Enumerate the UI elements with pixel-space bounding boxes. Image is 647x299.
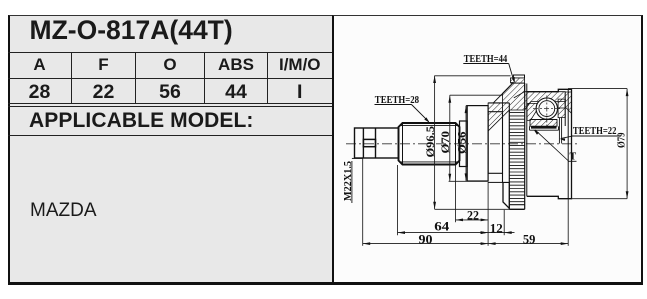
dim dia70 [449,95,503,181]
bell barrel and right face [503,84,572,209]
bore opening verticals right [558,118,560,144]
threaded stub M22X1.5 [355,128,399,158]
boot seat ring dia56 [467,106,488,181]
dim dia56 [466,106,470,181]
ABS tone ring TEETH=44 band [509,113,524,202]
table panel background [8,15,332,285]
svg-text:Ø56: Ø56 [456,131,468,154]
spline shaft TEETH=28 [399,123,460,165]
inner race section [530,120,557,127]
svg-text:Ø70: Ø70 [440,131,452,154]
centerline axis [346,143,578,145]
groove valley ring [488,112,502,174]
svg-text:59: 59 [523,231,536,246]
dim arrows [456,219,464,222]
drawing panel background [332,15,644,285]
cage wedge right [558,99,565,118]
svg-text:Ø96.5: Ø96.5 [425,126,437,158]
dim dia79 [568,89,627,199]
dim extension lines [363,158,569,245]
svg-text:64: 64 [434,218,450,233]
collar neck [460,121,468,167]
svg-text:Ø79: Ø79 [617,133,628,149]
bell lip edge [488,103,509,209]
bell wall section hatch (one region) [488,78,565,131]
svg-text:22: 22 [467,207,479,222]
cage wedge left [527,103,538,120]
applicable model row [8,106,332,136]
bearing ball [536,98,557,119]
dim value texts [419,207,536,246]
slope lip to ring bottom [503,182,509,208]
title row [8,15,332,53]
values row [8,79,72,104]
header row [8,53,72,79]
svg-text:T: T [570,151,577,162]
ABS rim step [513,75,524,78]
MAZDA [30,200,97,222]
dim dia96.5 [435,76,511,210]
svg-text:12: 12 [490,220,503,235]
svg-text:90: 90 [419,231,433,246]
right wall hatch [565,92,571,113]
